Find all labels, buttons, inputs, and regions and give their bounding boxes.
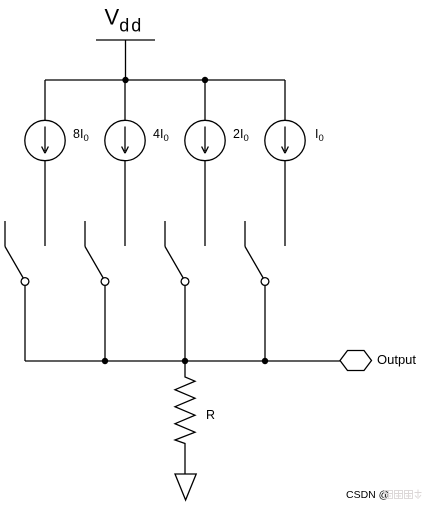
wire source I2 to switch area	[124, 161, 126, 246]
current source I4 (I0)	[265, 120, 305, 160]
wire rail to source I4	[284, 80, 286, 120]
wire source I3 to switch area	[204, 161, 206, 246]
switch S3	[165, 221, 189, 285]
junction dot top rail at x=125	[122, 77, 128, 83]
current source I2 (4I0)	[105, 120, 145, 160]
wire rail to source I3	[204, 80, 206, 120]
wire switch S2 to bottom rail	[104, 285, 106, 361]
wire source I4 to switch area	[284, 161, 286, 246]
switch S1	[5, 221, 29, 285]
bottom output rail	[25, 360, 340, 362]
resistor R	[175, 361, 195, 474]
junction dot bottom rail at x=185	[182, 358, 188, 364]
junction dot top rail at x=205	[202, 77, 208, 83]
svg-text:CSDN @: CSDN @	[346, 489, 389, 501]
wire source I1 to switch area	[44, 161, 46, 246]
svg-text:Output: Output	[377, 352, 416, 367]
wire Vdd bar to top rail	[125, 40, 127, 80]
wire switch S1 to bottom rail	[24, 285, 26, 361]
svg-text:R: R	[206, 408, 215, 422]
current source I1 (8I0)	[25, 120, 65, 160]
junction dot bottom rail at x=105	[102, 358, 108, 364]
Vdd power bar	[96, 39, 155, 41]
wire switch S4 to bottom rail	[264, 285, 266, 361]
switch S4	[245, 221, 269, 285]
output terminal hexagon	[340, 351, 372, 371]
wire rail to source I1	[44, 80, 46, 120]
top supply rail	[45, 79, 285, 81]
ground	[175, 474, 196, 500]
switch S2	[85, 221, 109, 285]
junction dot bottom rail at x=265	[262, 358, 268, 364]
watermark CSDN	[346, 489, 422, 501]
current source I3 (2I0)	[185, 120, 225, 160]
wire rail to source I2	[124, 80, 126, 120]
wire switch S3 to bottom rail	[184, 285, 186, 361]
